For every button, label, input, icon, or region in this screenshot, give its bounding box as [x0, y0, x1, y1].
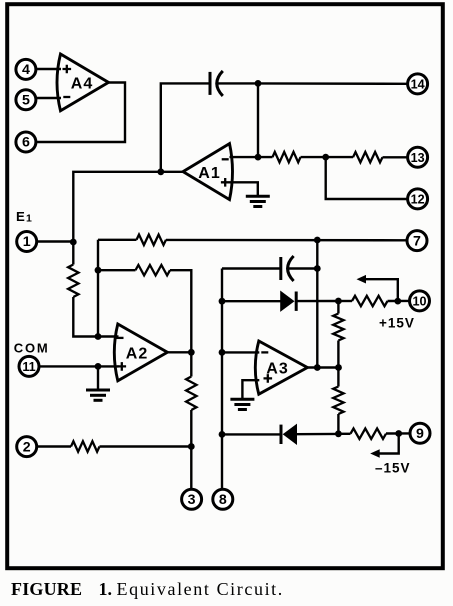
svg-text:11: 11 [22, 360, 35, 374]
svg-text:1: 1 [23, 234, 31, 250]
svg-text:A2: A2 [126, 345, 148, 362]
svg-text:3: 3 [188, 492, 196, 508]
svg-text:E: E [16, 209, 25, 224]
svg-text:13: 13 [411, 151, 425, 165]
svg-text:7: 7 [413, 233, 421, 249]
svg-text:A4: A4 [71, 76, 93, 93]
svg-text:9: 9 [416, 426, 424, 442]
svg-text:2: 2 [23, 439, 31, 455]
svg-text:10: 10 [412, 295, 426, 309]
svg-text:6: 6 [22, 135, 30, 151]
svg-text:A1: A1 [198, 165, 220, 182]
svg-text:4: 4 [22, 62, 30, 78]
svg-text:+15V: +15V [379, 315, 415, 330]
svg-text:–15V: –15V [375, 461, 411, 476]
svg-text:COM: COM [14, 340, 50, 355]
svg-text:A3: A3 [266, 361, 288, 378]
svg-text:12: 12 [411, 193, 425, 207]
svg-text:5: 5 [22, 93, 30, 109]
svg-text:14: 14 [411, 78, 425, 92]
svg-text:1: 1 [26, 213, 32, 225]
svg-text:8: 8 [219, 492, 227, 508]
